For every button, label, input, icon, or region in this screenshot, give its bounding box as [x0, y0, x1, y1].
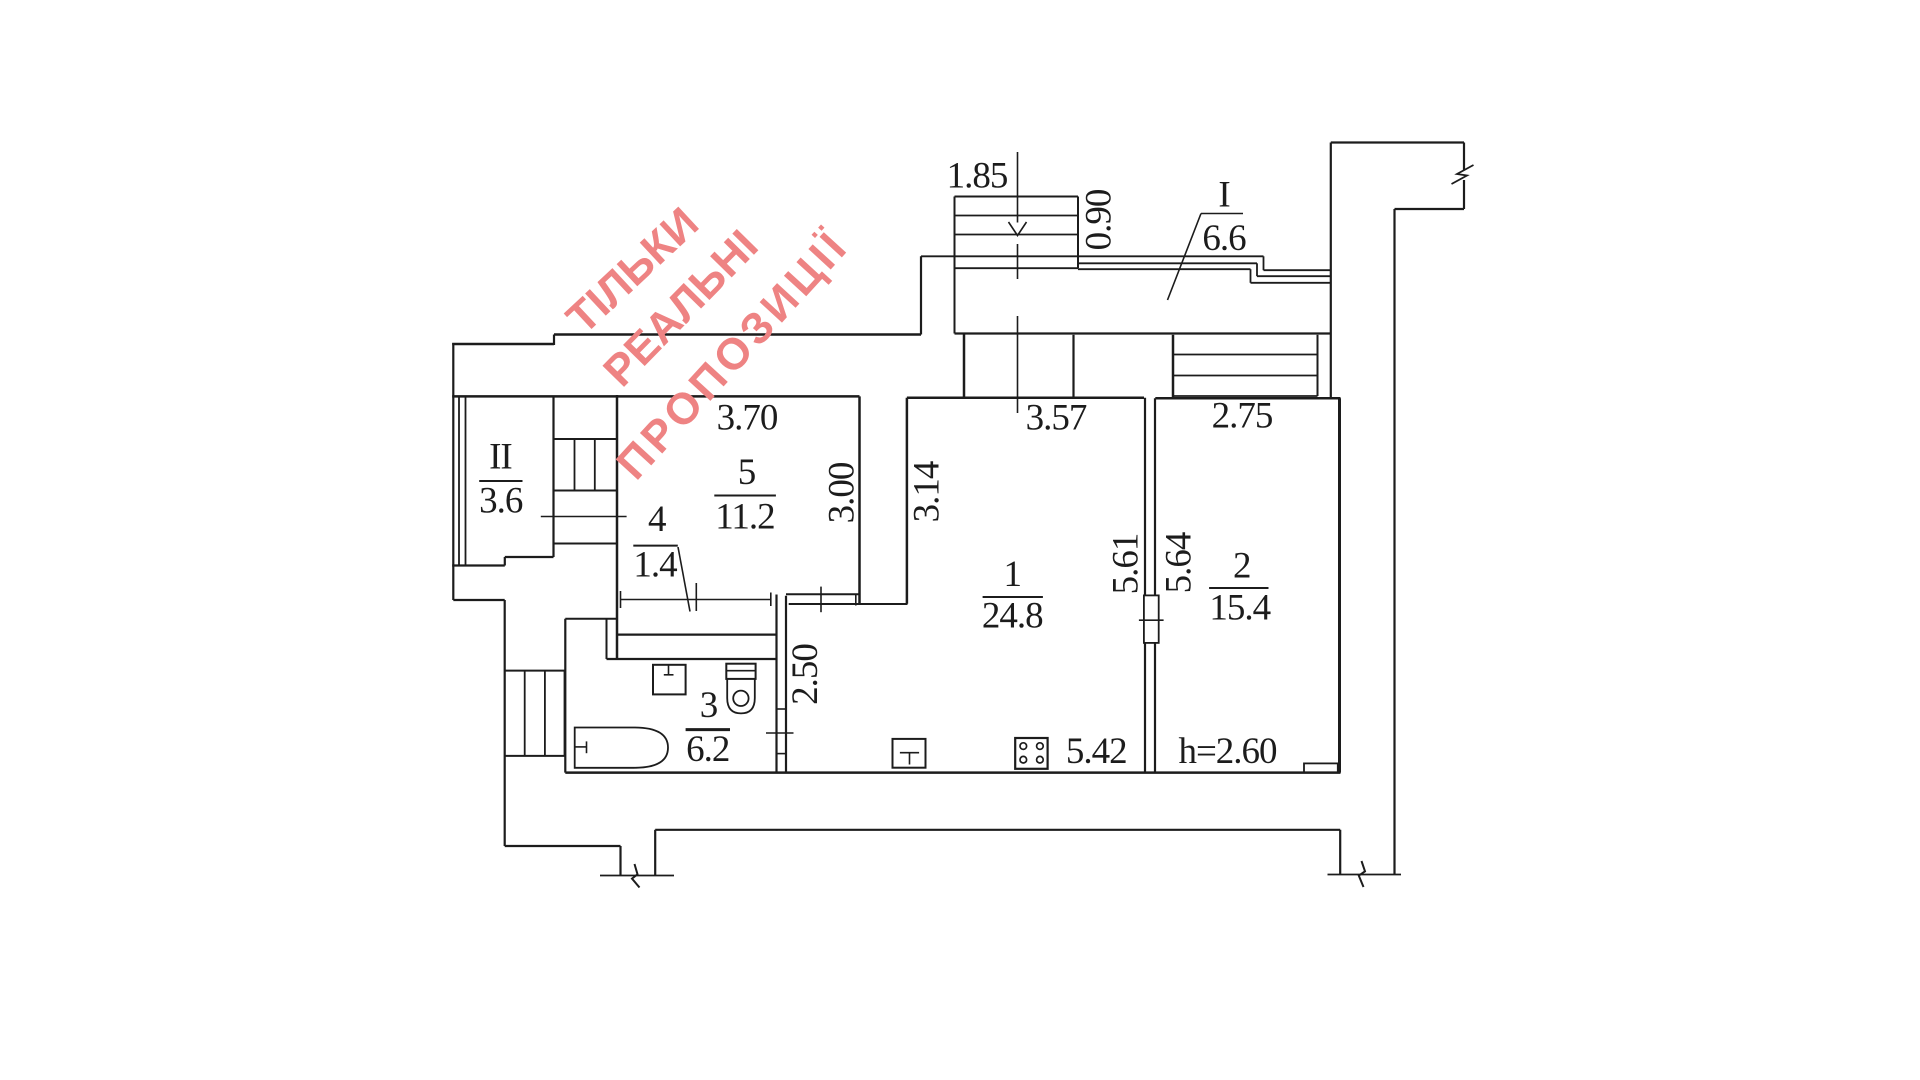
balcony rail lower	[1078, 268, 1251, 270]
shaft bottom / band lower line	[789, 603, 908, 605]
wall: outer left vertical	[452, 343, 454, 600]
wall: room 2 right	[1338, 398, 1341, 772]
stairs mid: bottom edge	[554, 490, 618, 492]
wall: top-right vertical with break	[1463, 143, 1465, 171]
window room II line 2	[458, 396, 460, 565]
tick left	[620, 591, 622, 608]
stairs upper: right edge	[1077, 197, 1079, 269]
svg-text:11.2: 11.2	[715, 497, 774, 538]
stairs mid: treads	[574, 439, 576, 491]
tick x855.8	[855, 595, 857, 606]
wall: vertical up to stair landing	[920, 256, 922, 334]
stairs upper: tread 2	[955, 234, 1079, 236]
svg-text:5.42: 5.42	[1066, 731, 1127, 772]
wall: room II right	[552, 396, 554, 557]
wall: break zigzag bottom-right	[1359, 861, 1365, 887]
wall: lower-left vertical	[504, 600, 506, 846]
stove	[1015, 738, 1047, 769]
svg-text:I: I	[1218, 175, 1230, 216]
svg-text:5.64: 5.64	[1159, 532, 1200, 593]
stairs mid: top edge	[554, 438, 618, 440]
partition rooms 1-2 line A	[1144, 398, 1146, 596]
svg-text:4: 4	[648, 499, 666, 540]
fraction bars	[479, 480, 522, 482]
balcony slab bottom	[955, 332, 1331, 334]
balcony label leader	[1168, 214, 1202, 301]
wall ticks inside	[777, 708, 787, 710]
partition box	[1144, 595, 1159, 643]
wall: balcony right vertical	[1330, 143, 1332, 399]
window jamb x1173	[1172, 335, 1175, 398]
stairs lower: top edge	[505, 670, 565, 672]
washbasin bathroom	[653, 665, 686, 695]
bath tub	[575, 728, 668, 768]
bottom wall main	[565, 771, 1340, 774]
wall: bottom-left step horizontal	[453, 599, 504, 601]
wall: break zigzag bottom-left	[632, 864, 640, 888]
window glazing lines room 2	[1173, 354, 1318, 356]
svg-text:24.8: 24.8	[982, 596, 1043, 637]
washbasin kitchen	[893, 739, 926, 768]
stairs upper: left edge	[954, 197, 956, 334]
niche room 2 bottom	[1304, 763, 1338, 772]
bathroom top wall lower line	[607, 658, 777, 660]
svg-text:5.61: 5.61	[1106, 534, 1147, 595]
svg-text:5: 5	[738, 452, 756, 493]
wall: room 5 left	[616, 395, 619, 660]
svg-text:2: 2	[1233, 545, 1251, 586]
stairs upper: bottom edge	[955, 267, 1079, 269]
wall: top-right notch horizontal	[1395, 208, 1465, 210]
svg-text:2.50: 2.50	[785, 644, 826, 705]
wall: rise from break line	[654, 830, 656, 876]
svg-text:3.57: 3.57	[1026, 398, 1087, 439]
svg-text:2.75: 2.75	[1212, 396, 1273, 437]
wall: drop to break line	[619, 846, 621, 876]
corridor upper line	[565, 618, 617, 620]
inner top wall room 1	[907, 396, 1144, 399]
wall: bottom horizontal left section	[505, 845, 621, 847]
bathroom top wall upper line	[617, 633, 777, 635]
wall pier below balcony	[963, 335, 966, 398]
inner top wall room 2	[1155, 397, 1340, 400]
wall: landing top horizontal + stair rail upper	[921, 255, 1264, 257]
svg-text:3.70: 3.70	[717, 398, 778, 439]
stairs lower: right edge	[564, 671, 566, 756]
svg-text:3.14: 3.14	[907, 461, 948, 522]
wall: bathroom left	[564, 619, 566, 773]
svg-text:3: 3	[700, 685, 718, 726]
band upper line	[786, 593, 859, 595]
window jamb x1073.5	[1072, 335, 1074, 398]
balcony rail step verticals	[1263, 256, 1265, 270]
leader line room 4	[541, 516, 627, 518]
wall: room II bottom step	[505, 556, 554, 558]
window jamb x1317.5	[1317, 335, 1319, 396]
dimension tick y733	[766, 732, 794, 734]
svg-text:3.00: 3.00	[822, 462, 863, 523]
inner top wall rooms II and 5	[452, 395, 859, 398]
wall: break zigzag top-right	[1452, 165, 1474, 184]
door jamb tick	[695, 583, 697, 611]
svg-text:15.4: 15.4	[1209, 587, 1270, 628]
balcony rail middle	[1078, 262, 1257, 264]
window room II line 3	[465, 396, 467, 565]
bath tap	[575, 746, 586, 748]
stair direction line with arrow	[1017, 152, 1019, 223]
svg-text:1: 1	[1003, 554, 1021, 595]
wall: break tick bottom-left	[600, 875, 674, 877]
wall: bathroom right double line	[775, 595, 777, 773]
svg-text:h=2.60: h=2.60	[1178, 731, 1277, 772]
corridor 4 dimension line	[621, 599, 771, 601]
window sill room 2	[1173, 395, 1318, 397]
partition rooms 1-2 line B	[1154, 398, 1156, 595]
svg-text:3.6: 3.6	[479, 481, 523, 522]
svg-text:0.90: 0.90	[1079, 189, 1120, 250]
svg-text:6.6: 6.6	[1202, 218, 1246, 259]
stairs lower: treads	[524, 671, 526, 756]
landing line	[554, 543, 618, 545]
wall: bottom-right drop	[1339, 830, 1341, 875]
wall: room 5 right	[858, 396, 861, 604]
partition tick	[1139, 619, 1164, 621]
wall: room 1 left	[906, 398, 909, 604]
wall: break tick bottom-right	[1328, 874, 1402, 876]
tick x821	[820, 587, 822, 613]
svg-text:1.85: 1.85	[947, 156, 1008, 197]
connector x606.5	[606, 619, 608, 659]
door leaf room 5	[678, 547, 690, 612]
stairs upper: tread 1	[955, 215, 1079, 217]
balcony rail right sections	[1264, 269, 1331, 271]
toilet	[726, 664, 755, 679]
svg-text:1.4: 1.4	[633, 545, 677, 586]
tick right	[770, 593, 772, 607]
stairs lower: bottom edge	[505, 755, 565, 757]
wall: outer top-left horizontal	[452, 343, 554, 346]
wall: step at x554	[553, 335, 555, 346]
svg-text:6.2: 6.2	[686, 729, 729, 770]
wall: building top horizontal	[1331, 141, 1464, 143]
wall: outer top horizontal	[554, 333, 921, 336]
wall: outer right vertical	[1393, 209, 1395, 875]
wall: bottom horizontal main	[655, 829, 1340, 831]
stairs upper: top edge	[955, 196, 1079, 198]
svg-text:II: II	[489, 437, 512, 478]
